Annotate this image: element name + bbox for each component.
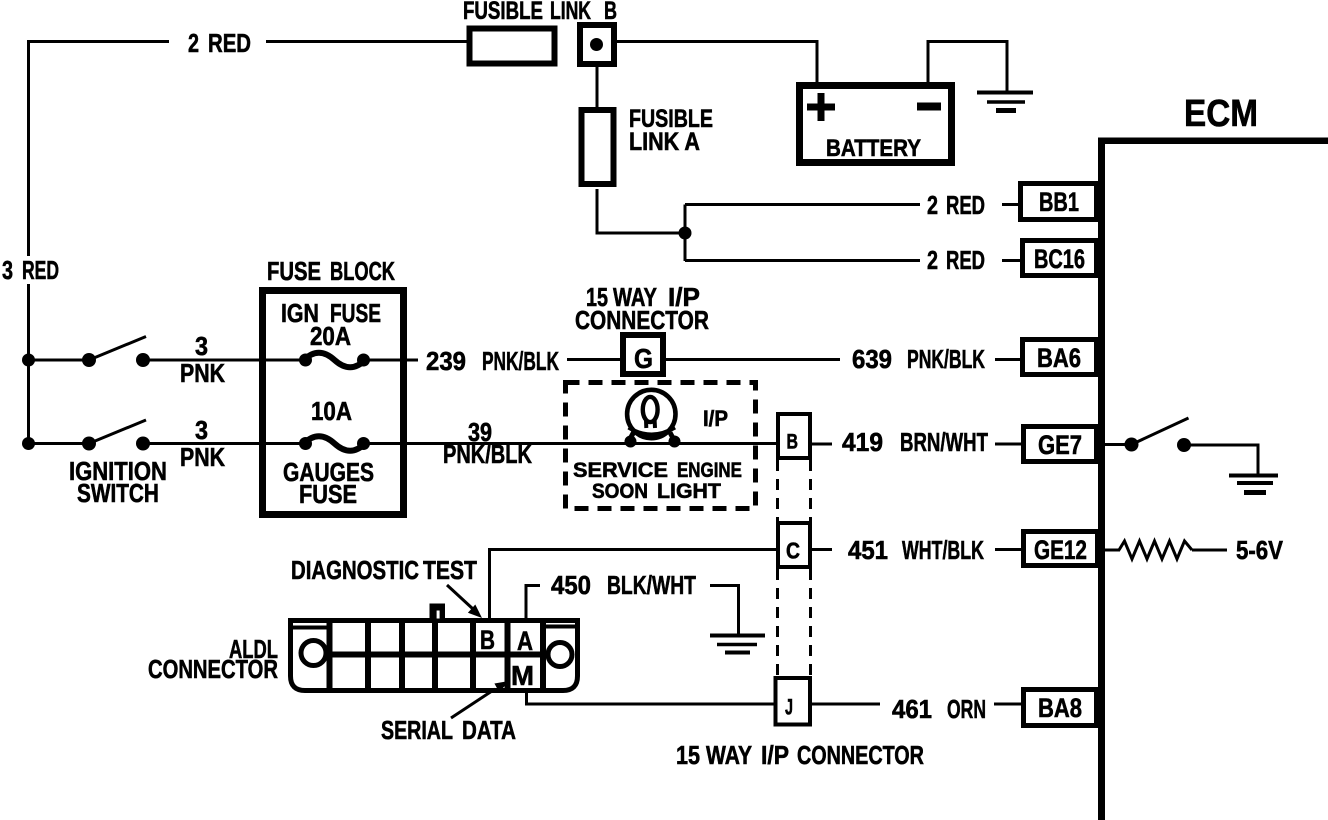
fuse element IGN FUSE 20A <box>304 353 365 368</box>
label FUSIBLE LINK A <box>629 105 713 156</box>
wire 39 PNK/BLK to pin B <box>406 442 777 445</box>
svg-text:639: 639 <box>852 345 892 374</box>
svg-text:PNK/BLK: PNK/BLK <box>482 346 559 375</box>
svg-text:BRN/WHT: BRN/WHT <box>900 428 988 457</box>
junction dot left rail row1 <box>22 354 35 367</box>
svg-text:RED: RED <box>208 29 251 58</box>
svg-text:B: B <box>787 429 798 453</box>
svg-text:BATTERY: BATTERY <box>826 135 921 162</box>
wire GE7 to switch <box>1105 443 1126 446</box>
svg-text:2: 2 <box>927 245 938 274</box>
wire link B square to link A <box>596 66 599 108</box>
dashed link pin C to pin J <box>778 569 811 677</box>
wire fuse row1 inside fuse block <box>262 359 406 362</box>
indicator bulb <box>627 390 675 441</box>
wire battery positive drop <box>816 40 819 83</box>
svg-text:DATA: DATA <box>462 716 516 745</box>
dashed link pin B to pin C <box>778 460 811 521</box>
label FUSIBLE LINK B <box>463 0 617 25</box>
svg-text:450: 450 <box>551 571 591 600</box>
svg-text:LINK: LINK <box>550 0 591 25</box>
svg-text:BA6: BA6 <box>1037 344 1081 374</box>
svg-text:B: B <box>604 0 617 25</box>
wire fusible link B to battery <box>616 40 819 43</box>
svg-text:WAY: WAY <box>706 742 752 771</box>
label 2 RED to BB1 <box>927 190 985 219</box>
fuse element GAUGES FUSE 10A <box>304 436 365 451</box>
svg-text:I/P: I/P <box>703 407 728 431</box>
ground symbol at battery <box>977 93 1033 111</box>
wire 450 BLK/WHT from ALDL pin A to ground <box>525 584 741 634</box>
diagnostic switch contacts at GE7 <box>1125 438 1192 453</box>
wire negative to ground <box>927 40 1009 92</box>
resistor 5-6V zigzag <box>1119 541 1192 559</box>
svg-text:3: 3 <box>195 417 208 445</box>
svg-text:TEST: TEST <box>423 557 477 586</box>
label 15 WAY I/P CONNECTOR top <box>575 282 709 334</box>
svg-text:I/P: I/P <box>761 742 789 771</box>
svg-text:5-6V: 5-6V <box>1236 536 1283 565</box>
I/P connector pin box B <box>778 414 810 458</box>
svg-text:BLOCK: BLOCK <box>330 257 396 286</box>
junction dot at fusible link B square <box>590 38 603 51</box>
label 419 BRN/WHT <box>842 428 988 457</box>
fuse terminal dots row1 <box>299 354 370 367</box>
wire 419 BRN/WHT pin B to GE7 <box>811 443 1022 446</box>
wire ignition row2 <box>27 442 261 445</box>
service engine soon light dashed box <box>566 383 756 509</box>
wire switch to ground <box>1189 445 1260 475</box>
ignition switch contacts row1 <box>82 353 150 367</box>
svg-text:G: G <box>634 342 653 374</box>
wire GE12 resistor leads <box>1105 549 1227 552</box>
svg-text:PNK/BLK: PNK/BLK <box>907 345 985 374</box>
svg-text:SERIAL: SERIAL <box>381 715 453 744</box>
label 39 PNK/BLK <box>443 418 532 468</box>
svg-text:B: B <box>480 625 495 655</box>
fuse terminal dots row2 <box>299 437 370 450</box>
ALDL pin grid <box>327 621 546 690</box>
svg-text:419: 419 <box>842 428 883 457</box>
label SERIAL DATA <box>381 715 516 744</box>
svg-text:SERVICE: SERVICE <box>573 458 668 482</box>
fusible link B box <box>470 29 555 64</box>
svg-text:GE12: GE12 <box>1034 535 1087 565</box>
svg-text:GE7: GE7 <box>1038 431 1082 461</box>
label 451 WHT/BLK <box>848 536 984 566</box>
svg-text:C: C <box>786 538 800 564</box>
svg-text:20A: 20A <box>310 322 351 351</box>
svg-text:FUSIBLE: FUSIBLE <box>463 0 543 25</box>
I/P connector pin box J <box>776 678 811 725</box>
svg-text:DIAGNOSTIC: DIAGNOSTIC <box>291 556 419 585</box>
ground symbol at diagnostic switch <box>1229 476 1278 493</box>
fusible link B junction square <box>580 25 614 64</box>
wire top horizontal 2 RED <box>27 40 467 43</box>
ground symbol at 450 BLK/WHT <box>710 636 765 653</box>
wire 239 PNK/BLK <box>406 358 621 362</box>
diagnostic switch blade <box>1132 418 1189 445</box>
label 239 PNK/BLK <box>426 346 559 376</box>
ignition switch blade row1 <box>89 337 146 361</box>
ECM pin box BC16 <box>1023 241 1097 276</box>
svg-text:PNK/BLK: PNK/BLK <box>443 439 532 468</box>
label FUSE BLOCK <box>267 257 396 286</box>
svg-text:SOON: SOON <box>592 480 648 503</box>
ECM pin box BA8 <box>1024 690 1097 726</box>
svg-text:LINK A: LINK A <box>629 127 700 155</box>
fusible link A box <box>582 110 614 184</box>
svg-text:3: 3 <box>195 333 208 361</box>
svg-text:461: 461 <box>892 695 932 724</box>
ALDL right tab inner line <box>543 625 576 629</box>
label 2 RED top <box>188 28 251 57</box>
ECM rail vertical <box>1098 138 1105 820</box>
wire 639 PNK/BLK G to BA6 <box>665 358 1021 361</box>
label DIAGNOSTIC TEST <box>291 556 477 586</box>
wire 451 vertical from ALDL pin B <box>488 548 491 618</box>
svg-text:ENGINE: ENGINE <box>677 459 742 482</box>
svg-text:BB1: BB1 <box>1039 187 1079 218</box>
bulb terminal dots <box>625 436 681 448</box>
svg-text:PNK: PNK <box>180 359 225 389</box>
svg-text:WHT/BLK: WHT/BLK <box>902 536 984 565</box>
label 450 BLK/WHT <box>551 570 696 600</box>
svg-text:RED: RED <box>22 256 59 285</box>
ECM pin box GE12 <box>1024 532 1098 566</box>
wire branch to BC16 <box>685 259 1021 262</box>
svg-text:239: 239 <box>426 347 466 376</box>
svg-text:A: A <box>517 627 533 657</box>
serial data arrow <box>451 681 509 718</box>
ignition switch blade row2 <box>89 420 146 444</box>
svg-text:M: M <box>511 660 534 691</box>
wire 451 horizontal ALDL B to pin C <box>490 548 778 551</box>
svg-text:BLK/WHT: BLK/WHT <box>607 570 696 600</box>
junction dot 2 RED branch <box>679 227 692 240</box>
ALDL key tab <box>430 604 446 619</box>
wire battery negative riser <box>927 40 930 83</box>
svg-text:RED: RED <box>946 191 985 220</box>
label ALDL CONNECTOR <box>148 635 278 684</box>
svg-text:CONNECTOR: CONNECTOR <box>575 306 709 335</box>
svg-text:RED: RED <box>946 246 985 275</box>
wire left vertical rail <box>27 40 30 445</box>
svg-text:2: 2 <box>188 28 199 57</box>
battery plus terminal <box>807 93 835 121</box>
svg-text:BA8: BA8 <box>1038 694 1082 724</box>
ECM pin box BA6 <box>1023 340 1097 375</box>
label 3 RED <box>2 255 59 285</box>
wire link A down to junction <box>596 189 686 261</box>
label 15 WAY I/P CONNECTOR bottom <box>676 740 924 770</box>
label 3 PNK row2 <box>180 417 225 473</box>
wire ignition row1 <box>27 359 261 362</box>
wire 461 ORN pin J to BA8 <box>811 703 1022 706</box>
svg-text:ORN: ORN <box>947 695 986 724</box>
ECM pin box GE7 <box>1024 427 1097 462</box>
I/P connector pin box C <box>778 523 810 567</box>
svg-text:FUSE: FUSE <box>299 480 357 509</box>
label IGNITION SWITCH <box>69 457 167 507</box>
label SERVICE ENGINE SOON LIGHT <box>573 458 742 503</box>
svg-text:SWITCH: SWITCH <box>77 479 159 508</box>
label 2 RED to BC16 <box>927 245 985 274</box>
label 461 ORN <box>892 695 986 725</box>
svg-text:PNK: PNK <box>180 443 225 473</box>
ECM rail top bar <box>1101 138 1328 145</box>
svg-text:3: 3 <box>2 255 13 284</box>
ALDL connector body <box>291 621 578 691</box>
wire fuse row2 inside fuse block <box>262 442 406 445</box>
svg-text:10A: 10A <box>311 397 352 426</box>
svg-text:15: 15 <box>676 741 700 770</box>
svg-text:CONNECTOR: CONNECTOR <box>797 740 924 769</box>
junction dot left rail row2 <box>22 437 35 450</box>
label GAUGES FUSE <box>283 459 374 510</box>
svg-text:2: 2 <box>927 190 938 219</box>
ALDL left tab inner line <box>292 626 327 630</box>
svg-text:BC16: BC16 <box>1034 245 1085 275</box>
label 3 PNK row1 <box>180 333 225 389</box>
wire 451 WHT/BLK pin C to GE12 <box>811 548 1022 551</box>
svg-text:LIGHT: LIGHT <box>657 480 721 503</box>
svg-text:ECM: ECM <box>1184 92 1258 135</box>
svg-text:451: 451 <box>848 536 888 565</box>
svg-text:FUSE: FUSE <box>267 257 321 286</box>
svg-text:J: J <box>785 694 793 719</box>
diagnostic test arrow <box>447 585 482 618</box>
wire serial data ALDL pin M to pin J <box>525 688 776 706</box>
ALDL right screw hole <box>548 643 572 667</box>
ignition switch contacts row2 <box>82 437 150 451</box>
svg-text:CONNECTOR: CONNECTOR <box>148 655 278 684</box>
ECM pin box BB1 <box>1021 184 1097 220</box>
label 639 PNK/BLK <box>852 345 985 375</box>
battery box <box>800 86 952 163</box>
wire branch to BB1 <box>685 203 1019 206</box>
15 way I/P connector pin G box <box>623 335 663 374</box>
fuse block box <box>263 291 404 515</box>
label IGN FUSE <box>281 298 381 328</box>
ALDL left screw hole <box>301 641 326 666</box>
battery minus terminal <box>917 103 941 111</box>
